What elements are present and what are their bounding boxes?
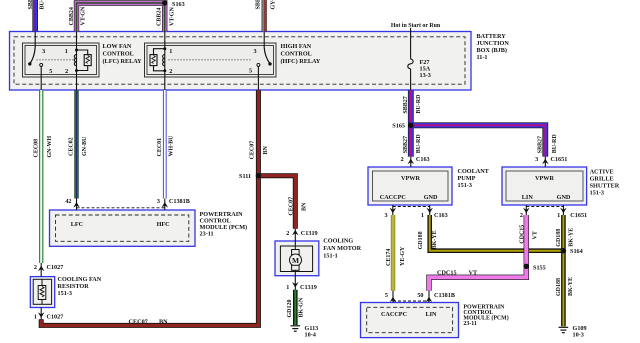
node HFC pin2 junction xyxy=(163,69,166,72)
svg-text:S155: S155 xyxy=(533,265,546,272)
motor pin2 lead xyxy=(294,229,296,246)
splice S111 xyxy=(256,173,261,178)
svg-text:BN: BN xyxy=(301,202,307,211)
svg-text:C1651: C1651 xyxy=(570,212,587,219)
cooling fan motor box xyxy=(275,241,319,276)
svg-text:GND: GND xyxy=(424,194,438,201)
wire GD120 BK-GN motor to G113 xyxy=(293,290,298,325)
svg-text:COOLING: COOLING xyxy=(323,238,353,245)
resistor HFC coil resistor xyxy=(150,49,165,71)
svg-text:CONTROL: CONTROL xyxy=(281,51,312,58)
wire CEC02 GN-BU from LFC pin2 to PCM pin42 xyxy=(74,90,78,199)
motor pin1 lead xyxy=(294,272,296,291)
svg-text:CACCPC: CACCPC xyxy=(381,311,407,318)
svg-text:BOX (BJB): BOX (BJB) xyxy=(477,47,507,54)
pin 3 arrow down xyxy=(390,208,397,214)
wire BJB fuse feed xyxy=(410,28,412,59)
svg-text:10-4: 10-4 xyxy=(305,332,316,339)
svg-text:SBB28: SBB28 xyxy=(255,0,261,10)
svg-text:VPWR: VPWR xyxy=(535,175,554,182)
svg-text:BU-RD: BU-RD xyxy=(552,134,558,154)
svg-text:50: 50 xyxy=(417,292,423,299)
svg-text:BK-GN: BK-GN xyxy=(299,297,305,317)
pin 1 C1319 arrow down xyxy=(292,282,299,288)
svg-text:2: 2 xyxy=(65,68,68,75)
wire LFC pin5 lead xyxy=(40,66,42,90)
relay K1 LFC relay outer box xyxy=(23,43,100,77)
svg-text:CACCPC: CACCPC xyxy=(380,194,406,201)
svg-text:VT-GN: VT-GN xyxy=(80,6,86,25)
svg-text:CEC07: CEC07 xyxy=(249,141,255,160)
svg-text:CBB24: CBB24 xyxy=(157,8,163,26)
resistor LFC coil resistor xyxy=(77,50,92,71)
svg-text:BU-RD: BU-RD xyxy=(40,0,46,10)
svg-text:C1319: C1319 xyxy=(301,230,318,237)
svg-text:GY-RD: GY-RD xyxy=(270,0,276,10)
svg-text:2: 2 xyxy=(401,156,404,163)
pin 5 arrow up xyxy=(390,297,397,303)
svg-text:S165: S165 xyxy=(392,123,405,130)
svg-text:PUMP: PUMP xyxy=(458,175,476,182)
svg-text:CONTROL: CONTROL xyxy=(103,51,134,58)
shutter connector dashed line xyxy=(526,206,563,208)
svg-text:FAN MOTOR: FAN MOTOR xyxy=(323,245,361,252)
svg-text:SHUTTER: SHUTTER xyxy=(590,183,620,190)
pin 2 arrow down xyxy=(523,208,530,214)
svg-text:GN-BU: GN-BU xyxy=(82,136,88,156)
svg-text:CBB24: CBB24 xyxy=(69,7,75,25)
splice S155 xyxy=(524,264,529,269)
node LFC pin2 junction xyxy=(75,69,78,72)
shutter bottom connector leads xyxy=(525,205,527,215)
svg-text:151-3: 151-3 xyxy=(58,290,72,297)
svg-text:CDC15: CDC15 xyxy=(519,225,525,244)
svg-text:LFC: LFC xyxy=(71,221,83,228)
svg-text:LOW FAN: LOW FAN xyxy=(103,43,132,50)
svg-text:1: 1 xyxy=(34,314,37,321)
svg-text:42: 42 xyxy=(65,198,71,205)
splice S163 xyxy=(162,0,167,5)
LFC switch arm pin3 xyxy=(30,47,35,64)
PCM2 connector leads xyxy=(392,291,394,303)
ground G109 xyxy=(559,327,569,332)
wire GD188 BK-YE shutter GND to G109 xyxy=(561,215,566,326)
LFC actuation dotted line xyxy=(37,59,75,61)
active grille shutter box xyxy=(502,167,587,205)
PCM1 connector dashed line C1381B xyxy=(77,207,165,209)
svg-text:VPWR: VPWR xyxy=(401,175,420,182)
svg-text:BU-RD: BU-RD xyxy=(416,134,422,154)
svg-text:1: 1 xyxy=(421,212,424,219)
svg-text:VT-GN: VT-GN xyxy=(170,7,176,26)
ground G113 xyxy=(291,326,301,331)
svg-text:S111: S111 xyxy=(239,173,251,180)
svg-text:C163: C163 xyxy=(416,156,430,163)
svg-text:2: 2 xyxy=(286,230,289,237)
HFC switch arm pin3 xyxy=(264,48,270,64)
fuse F27 xyxy=(408,59,413,69)
svg-text:ACTIVE: ACTIVE xyxy=(590,169,614,176)
wire HFC pin3 lead xyxy=(263,32,265,48)
pin 3 C1651 arrow xyxy=(542,159,549,165)
relay K2 HFC relay outer box xyxy=(145,43,277,77)
svg-text:GD188: GD188 xyxy=(418,231,424,249)
svg-text:COOLANT: COOLANT xyxy=(458,168,490,175)
node LFC pin1 junction xyxy=(75,49,78,52)
svg-text:10-3: 10-3 xyxy=(573,332,584,339)
splice S164 xyxy=(561,248,566,253)
wire LFC pin3 lead xyxy=(34,32,36,48)
wire HFC pin5 lead xyxy=(257,66,259,90)
svg-text:151-3: 151-3 xyxy=(458,182,472,189)
pin 2 C1319 arrow up xyxy=(292,230,299,236)
HFC actuation dotted line xyxy=(169,59,253,61)
wire CEC07 BN main run HFC pin5 to S111 to resistor xyxy=(41,90,258,325)
svg-text:(LFC) RELAY: (LFC) RELAY xyxy=(103,58,143,65)
pin 1 arrow down xyxy=(426,208,433,214)
svg-text:CEC02: CEC02 xyxy=(68,137,74,156)
pin 2 C163 arrow xyxy=(408,159,415,165)
BJB inner dashed boundary xyxy=(14,37,465,84)
svg-text:S164: S164 xyxy=(570,248,583,255)
PCM module box 2 xyxy=(361,303,459,338)
pump connector dashed line xyxy=(393,206,430,208)
svg-text:GN-WH: GN-WH xyxy=(47,136,53,158)
wire HFC pin1-pin2 lead xyxy=(164,32,166,91)
svg-text:SBB27: SBB27 xyxy=(28,0,34,10)
HFC pin5 contact xyxy=(257,63,260,66)
svg-text:JUNCTION: JUNCTION xyxy=(477,40,510,47)
svg-text:LIN: LIN xyxy=(522,194,534,201)
svg-text:151-1: 151-1 xyxy=(323,253,337,260)
wire CEC07 BN branch to fan motor xyxy=(258,176,295,229)
svg-text:CE174: CE174 xyxy=(386,249,392,266)
svg-text:BU-RD: BU-RD xyxy=(416,94,422,114)
svg-text:GD188: GD188 xyxy=(556,278,562,296)
resistor pin1 lead xyxy=(40,308,42,320)
svg-text:BK-YE: BK-YE xyxy=(432,230,438,249)
wire GD188 BK-YE pump GND to S164 xyxy=(430,215,564,251)
battery junction box BJB outline xyxy=(10,32,472,91)
svg-text:2: 2 xyxy=(34,264,37,271)
svg-text:3: 3 xyxy=(157,198,160,205)
svg-text:1: 1 xyxy=(557,212,560,219)
svg-text:CEC01: CEC01 xyxy=(157,138,163,157)
svg-text:2: 2 xyxy=(520,212,523,219)
svg-text:M: M xyxy=(292,256,299,265)
coil HFC relay coil xyxy=(163,55,165,66)
svg-text:BK-YE: BK-YE xyxy=(568,228,574,247)
coolant pump box xyxy=(368,167,452,205)
pin 50 arrow up xyxy=(426,297,433,303)
svg-text:1: 1 xyxy=(169,48,172,55)
svg-text:VT: VT xyxy=(532,231,538,239)
svg-text:S163: S163 xyxy=(172,1,185,8)
svg-text:SBB27: SBB27 xyxy=(403,96,409,113)
wire shutter VPWR lead xyxy=(544,157,546,167)
svg-text:5: 5 xyxy=(385,292,388,299)
svg-text:1: 1 xyxy=(65,48,68,55)
node HFC pin1 junction xyxy=(163,47,166,50)
resistor pin2 lead xyxy=(40,263,42,277)
svg-text:3: 3 xyxy=(385,212,388,219)
svg-text:(HFC) RELAY: (HFC) RELAY xyxy=(281,58,321,65)
svg-text:C1319: C1319 xyxy=(300,284,317,291)
coil LFC relay coil xyxy=(74,55,76,66)
svg-text:C1027: C1027 xyxy=(47,264,64,271)
wire LFC pin1-pin2 lead xyxy=(76,32,78,91)
svg-text:WH-BU: WH-BU xyxy=(169,135,175,157)
svg-text:3: 3 xyxy=(42,48,45,55)
svg-text:3: 3 xyxy=(535,156,538,163)
svg-text:HFC: HFC xyxy=(157,221,170,228)
svg-text:5: 5 xyxy=(249,68,252,75)
svg-text:5: 5 xyxy=(49,68,52,75)
svg-text:C1381B: C1381B xyxy=(169,198,190,205)
pin 2 C1027 arrow up xyxy=(38,266,45,272)
pin 3 arrow up xyxy=(162,202,169,208)
wire CEC08 GN-WH from LFC pin5 to resistor xyxy=(39,90,43,263)
pump bottom connector leads xyxy=(392,205,394,215)
PCM module box 1 xyxy=(50,210,196,246)
svg-text:VT: VT xyxy=(469,270,478,277)
wire SBB27 BU-RD to LFC pin 3 xyxy=(32,0,38,32)
svg-text:3: 3 xyxy=(253,48,256,55)
svg-text:C163: C163 xyxy=(434,212,448,219)
svg-text:2: 2 xyxy=(169,68,172,75)
PCM2 connector dashed line C1381B xyxy=(393,300,429,302)
svg-text:C1651: C1651 xyxy=(551,156,568,163)
LFC pin5 contact xyxy=(40,63,43,66)
svg-text:SBB27: SBB27 xyxy=(538,136,544,153)
svg-text:151-3: 151-3 xyxy=(590,190,604,197)
wire CDC15 VT shutter LIN to S155 to PCM pin50 xyxy=(429,215,526,291)
svg-text:COOLING FAN: COOLING FAN xyxy=(58,276,102,283)
cooling fan resistor box xyxy=(30,277,54,308)
pin 42 arrow up xyxy=(73,202,80,208)
wire SBB28 GY-RD to HFC pin 3 xyxy=(263,0,265,32)
svg-text:BN: BN xyxy=(159,318,168,325)
svg-text:GD120: GD120 xyxy=(287,300,293,318)
svg-text:C1027: C1027 xyxy=(47,314,64,321)
splice S165 xyxy=(408,123,414,129)
svg-text:C1381B: C1381B xyxy=(434,292,455,299)
wire CE174 YE-GY pump to PCM pin5 xyxy=(391,215,395,291)
wire CBB24 VT-GN loop LFC pin1 to HFC pin1 xyxy=(77,3,165,32)
svg-text:13-3: 13-3 xyxy=(420,72,431,79)
svg-text:CEC08: CEC08 xyxy=(34,139,40,158)
svg-text:LIN: LIN xyxy=(425,311,437,318)
svg-text:HIGH FAN: HIGH FAN xyxy=(281,43,312,50)
svg-text:RESISTOR: RESISTOR xyxy=(58,283,90,290)
svg-text:23-11: 23-11 xyxy=(463,321,476,327)
wire pump VPWR lead xyxy=(410,157,412,167)
wire CEC01 WH-BU from HFC pin2 to PCM pin3 xyxy=(163,90,167,199)
svg-text:GND: GND xyxy=(557,194,571,201)
pin 1 arrow down xyxy=(560,208,567,214)
PCM1 connector leads xyxy=(76,199,78,211)
svg-text:Hot in Start or Run: Hot in Start or Run xyxy=(391,23,441,29)
svg-text:CEC07: CEC07 xyxy=(129,318,148,325)
svg-text:BK-YE: BK-YE xyxy=(568,277,574,296)
svg-text:1: 1 xyxy=(286,284,289,291)
svg-text:SBB27: SBB27 xyxy=(403,136,409,153)
svg-text:23-11: 23-11 xyxy=(200,230,214,237)
svg-text:BATTERY: BATTERY xyxy=(477,33,507,40)
svg-text:CDC15: CDC15 xyxy=(437,270,457,277)
svg-text:CEC07: CEC07 xyxy=(288,197,294,216)
svg-text:YE-GY: YE-GY xyxy=(400,246,406,266)
wire SBB27 BU-RD from BJB to S165 and branches xyxy=(411,90,546,157)
svg-text:GRILLE: GRILLE xyxy=(590,176,614,183)
pin 1 C1027 arrow down xyxy=(38,312,45,318)
svg-text:11-1: 11-1 xyxy=(477,54,488,61)
svg-text:GD188: GD188 xyxy=(556,229,562,247)
svg-text:BN: BN xyxy=(263,145,269,154)
